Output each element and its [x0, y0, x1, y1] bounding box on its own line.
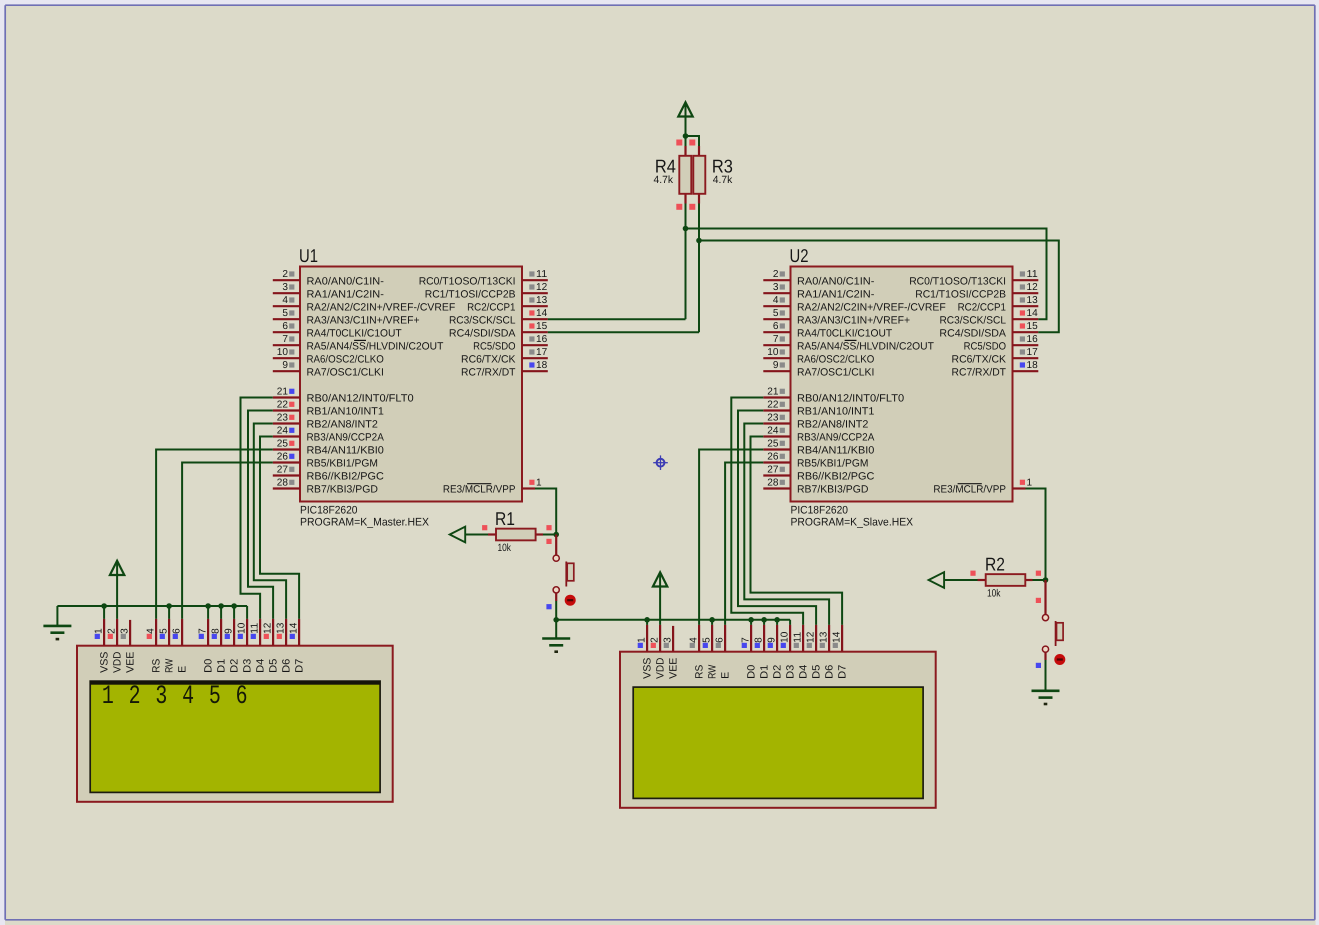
svg-text:RB6//KBI2/PGC: RB6//KBI2/PGC	[797, 471, 875, 483]
svg-text:RA5/AN4/SS/HLVDIN/C2OUT: RA5/AN4/SS/HLVDIN/C2OUT	[307, 340, 444, 352]
svg-text:RC3/SCK/SCL: RC3/SCK/SCL	[939, 314, 1006, 326]
svg-text:11: 11	[1027, 269, 1039, 280]
svg-text:E: E	[177, 666, 189, 673]
svg-text:1: 1	[1027, 477, 1033, 488]
svg-text:10k: 10k	[498, 542, 512, 554]
svg-text:E: E	[720, 672, 732, 679]
svg-text:11: 11	[536, 269, 548, 280]
svg-text:VEE: VEE	[125, 652, 137, 673]
svg-text:RB7/KBI3/PGD: RB7/KBI3/PGD	[307, 484, 379, 496]
svg-text:15: 15	[536, 321, 548, 332]
svg-text:RA2/AN2/C2IN+/VREF-/CVREF: RA2/AN2/C2IN+/VREF-/CVREF	[307, 301, 456, 313]
svg-text:RC4/SDI/SDA: RC4/SDI/SDA	[449, 327, 516, 339]
svg-text:VSS: VSS	[99, 652, 111, 673]
svg-text:18: 18	[536, 360, 548, 371]
svg-text:10: 10	[767, 347, 779, 358]
svg-text:12: 12	[536, 282, 548, 293]
svg-text:RB6//KBI2/PGC: RB6//KBI2/PGC	[307, 471, 385, 483]
svg-text:RB4/AN11/KBI0: RB4/AN11/KBI0	[797, 445, 875, 457]
svg-text:RA3/AN3/C1IN+/VREF+: RA3/AN3/C1IN+/VREF+	[307, 314, 420, 326]
svg-text:14: 14	[536, 308, 548, 319]
svg-text:RB4/AN11/KBI0: RB4/AN11/KBI0	[307, 445, 385, 457]
svg-text:RA1/AN1/C2IN-: RA1/AN1/C2IN-	[307, 288, 385, 300]
svg-text:6: 6	[715, 637, 726, 643]
svg-text:16: 16	[1027, 334, 1039, 345]
svg-text:28: 28	[767, 477, 779, 488]
svg-text:4: 4	[282, 295, 288, 306]
svg-text:RA2/AN2/C2IN+/VREF-/CVREF: RA2/AN2/C2IN+/VREF-/CVREF	[797, 301, 946, 313]
svg-text:RC5/SDO: RC5/SDO	[473, 340, 515, 352]
svg-text:1: 1	[102, 681, 114, 711]
svg-text:7: 7	[741, 637, 752, 643]
svg-text:RA0/AN0/C1IN-: RA0/AN0/C1IN-	[797, 275, 875, 287]
svg-text:10: 10	[780, 631, 791, 643]
svg-text:26: 26	[767, 451, 779, 462]
svg-text:RA4/T0CLKI/C1OUT: RA4/T0CLKI/C1OUT	[307, 327, 403, 339]
svg-text:13: 13	[819, 631, 830, 643]
svg-text:2: 2	[773, 269, 779, 280]
svg-text:14: 14	[1027, 308, 1039, 319]
svg-text:6: 6	[172, 628, 183, 634]
svg-text:24: 24	[767, 425, 779, 436]
svg-text:RC3/SCK/SCL: RC3/SCK/SCL	[449, 314, 516, 326]
svg-text:14: 14	[289, 622, 300, 634]
svg-text:RB2/AN8/INT2: RB2/AN8/INT2	[307, 419, 379, 431]
svg-text:RC0/T1OSO/T13CKI: RC0/T1OSO/T13CKI	[419, 275, 516, 287]
svg-text:23: 23	[277, 412, 289, 423]
svg-text:6: 6	[773, 321, 779, 332]
svg-text:12: 12	[1027, 282, 1039, 293]
svg-text:VSS: VSS	[642, 658, 654, 679]
svg-text:RA3/AN3/C1IN+/VREF+: RA3/AN3/C1IN+/VREF+	[797, 314, 910, 326]
svg-text:28: 28	[277, 477, 289, 488]
svg-text:R1: R1	[495, 508, 515, 529]
svg-text:12: 12	[806, 631, 817, 643]
svg-text:RC0/T1OSO/T13CKI: RC0/T1OSO/T13CKI	[909, 275, 1006, 287]
svg-text:D0: D0	[746, 665, 758, 679]
svg-text:7: 7	[773, 334, 779, 345]
svg-text:RC1/T1OSI/CCP2B: RC1/T1OSI/CCP2B	[915, 288, 1006, 300]
svg-text:10k: 10k	[987, 588, 1001, 600]
svg-text:RB1/AN10/INT1: RB1/AN10/INT1	[797, 406, 875, 418]
svg-text:24: 24	[277, 425, 289, 436]
svg-text:10: 10	[237, 622, 248, 634]
svg-text:D0: D0	[203, 659, 215, 673]
svg-text:RC7/RX/DT: RC7/RX/DT	[461, 366, 516, 378]
svg-text:10: 10	[277, 347, 289, 358]
svg-text:PIC18F2620: PIC18F2620	[791, 505, 849, 517]
svg-text:21: 21	[277, 386, 289, 397]
svg-text:5: 5	[282, 308, 288, 319]
svg-text:4: 4	[182, 681, 194, 711]
svg-text:15: 15	[1027, 321, 1039, 332]
svg-text:RB5/KBI1/PGM: RB5/KBI1/PGM	[797, 458, 868, 470]
svg-text:D3: D3	[242, 659, 254, 673]
svg-text:D6: D6	[824, 665, 836, 679]
svg-text:RC1/T1OSI/CCP2B: RC1/T1OSI/CCP2B	[425, 288, 516, 300]
svg-text:R2: R2	[985, 554, 1005, 575]
svg-text:9: 9	[773, 360, 779, 371]
svg-text:RS: RS	[151, 659, 163, 673]
svg-text:VEE: VEE	[668, 658, 680, 679]
svg-text:13: 13	[276, 622, 287, 634]
svg-text:9: 9	[767, 637, 778, 643]
svg-text:6: 6	[282, 321, 288, 332]
svg-text:RC2/CCP1: RC2/CCP1	[467, 301, 516, 313]
svg-text:17: 17	[536, 347, 548, 358]
svg-text:D2: D2	[772, 665, 784, 679]
svg-text:PROGRAM=K_Slave.HEX: PROGRAM=K_Slave.HEX	[791, 517, 914, 529]
svg-text:9: 9	[224, 628, 235, 634]
svg-text:RC4/SDI/SDA: RC4/SDI/SDA	[939, 327, 1006, 339]
svg-text:RC2/CCP1: RC2/CCP1	[958, 301, 1007, 313]
svg-text:D1: D1	[759, 665, 771, 679]
svg-text:6: 6	[236, 681, 248, 711]
svg-text:D2: D2	[229, 659, 241, 673]
svg-text:RB0/AN12/INT0/FLT0: RB0/AN12/INT0/FLT0	[797, 393, 904, 405]
svg-text:2: 2	[282, 269, 288, 280]
svg-text:22: 22	[767, 399, 779, 410]
svg-text:3: 3	[773, 282, 779, 293]
svg-text:D4: D4	[798, 665, 810, 679]
svg-text:RB7/KBI3/PGD: RB7/KBI3/PGD	[797, 484, 869, 496]
svg-text:RA7/OSC1/CLKI: RA7/OSC1/CLKI	[797, 366, 874, 378]
svg-text:1: 1	[637, 637, 648, 643]
svg-text:18: 18	[1027, 360, 1039, 371]
svg-text:U2: U2	[790, 245, 809, 266]
svg-text:7: 7	[282, 334, 288, 345]
svg-text:16: 16	[536, 334, 548, 345]
svg-text:8: 8	[211, 628, 222, 634]
svg-text:8: 8	[754, 637, 765, 643]
svg-text:RB0/AN12/INT0/FLT0: RB0/AN12/INT0/FLT0	[307, 393, 414, 405]
svg-text:D7: D7	[294, 659, 306, 673]
svg-text:D5: D5	[268, 659, 280, 673]
svg-text:VDD: VDD	[655, 657, 667, 679]
svg-text:RA1/AN1/C2IN-: RA1/AN1/C2IN-	[797, 288, 875, 300]
svg-text:25: 25	[277, 438, 289, 449]
svg-text:U1: U1	[299, 245, 318, 266]
svg-text:3: 3	[663, 637, 674, 643]
svg-text:PROGRAM=K_Master.HEX: PROGRAM=K_Master.HEX	[300, 517, 430, 529]
svg-text:23: 23	[767, 412, 779, 423]
svg-text:5: 5	[702, 637, 713, 643]
svg-text:3: 3	[282, 282, 288, 293]
svg-text:RC5/SDO: RC5/SDO	[964, 340, 1006, 352]
svg-text:RE3/MCLR/VPP: RE3/MCLR/VPP	[443, 484, 516, 496]
svg-text:4: 4	[689, 637, 700, 643]
svg-text:D1: D1	[216, 659, 228, 673]
svg-text:27: 27	[767, 464, 779, 475]
svg-text:RA6/OSC2/CLKO: RA6/OSC2/CLKO	[797, 353, 874, 365]
svg-text:11: 11	[793, 631, 804, 643]
svg-text:4.7k: 4.7k	[713, 174, 733, 186]
svg-text:21: 21	[767, 386, 779, 397]
svg-text:25: 25	[767, 438, 779, 449]
svg-text:RA7/OSC1/CLKI: RA7/OSC1/CLKI	[307, 366, 384, 378]
svg-text:1: 1	[536, 477, 542, 488]
svg-text:9: 9	[282, 360, 288, 371]
svg-text:14: 14	[832, 631, 843, 643]
svg-text:13: 13	[1027, 295, 1039, 306]
svg-text:27: 27	[277, 464, 289, 475]
svg-text:RC6/TX/CK: RC6/TX/CK	[952, 353, 1006, 365]
svg-text:RB2/AN8/INT2: RB2/AN8/INT2	[797, 419, 869, 431]
svg-text:4: 4	[146, 628, 157, 634]
svg-text:RW: RW	[707, 665, 719, 679]
svg-text:D5: D5	[811, 665, 823, 679]
svg-text:22: 22	[277, 399, 289, 410]
svg-text:D4: D4	[255, 659, 267, 673]
svg-text:5: 5	[773, 308, 779, 319]
svg-text:RA0/AN0/C1IN-: RA0/AN0/C1IN-	[307, 275, 385, 287]
svg-text:RS: RS	[694, 665, 706, 679]
svg-text:4.7k: 4.7k	[654, 174, 674, 186]
svg-text:2: 2	[129, 681, 141, 711]
svg-text:RB5/KBI1/PGM: RB5/KBI1/PGM	[307, 458, 378, 470]
svg-text:17: 17	[1027, 347, 1039, 358]
svg-text:D7: D7	[837, 665, 849, 679]
svg-text:1: 1	[94, 628, 105, 634]
svg-text:5: 5	[159, 628, 170, 634]
svg-text:RB3/AN9/CCP2A: RB3/AN9/CCP2A	[797, 432, 874, 444]
svg-text:RA5/AN4/SS/HLVDIN/C2OUT: RA5/AN4/SS/HLVDIN/C2OUT	[797, 340, 934, 352]
svg-text:D3: D3	[785, 665, 797, 679]
svg-text:5: 5	[209, 681, 221, 711]
svg-text:2: 2	[650, 637, 661, 643]
svg-text:26: 26	[277, 451, 289, 462]
svg-text:3: 3	[155, 681, 167, 711]
svg-text:RW: RW	[164, 659, 176, 673]
svg-text:RB3/AN9/CCP2A: RB3/AN9/CCP2A	[307, 432, 384, 444]
svg-text:RE3/MCLR/VPP: RE3/MCLR/VPP	[933, 484, 1006, 496]
svg-text:11: 11	[250, 622, 261, 634]
svg-text:VDD: VDD	[112, 651, 124, 673]
svg-text:12: 12	[263, 622, 274, 634]
svg-text:RC7/RX/DT: RC7/RX/DT	[952, 366, 1007, 378]
svg-text:4: 4	[773, 295, 779, 306]
svg-text:2: 2	[107, 628, 118, 634]
svg-text:RC6/TX/CK: RC6/TX/CK	[461, 353, 515, 365]
svg-text:RB1/AN10/INT1: RB1/AN10/INT1	[307, 406, 385, 418]
svg-text:RA4/T0CLKI/C1OUT: RA4/T0CLKI/C1OUT	[797, 327, 893, 339]
svg-text:PIC18F2620: PIC18F2620	[300, 505, 358, 517]
svg-text:13: 13	[536, 295, 548, 306]
svg-text:RA6/OSC2/CLKO: RA6/OSC2/CLKO	[307, 353, 384, 365]
svg-text:3: 3	[120, 628, 131, 634]
svg-text:D6: D6	[281, 659, 293, 673]
svg-text:7: 7	[198, 628, 209, 634]
